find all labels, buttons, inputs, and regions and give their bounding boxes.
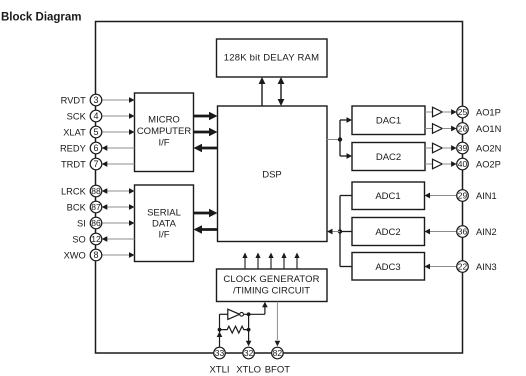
wire: ADC1 to bus [340,195,352,197]
pin 33 (XTLI) [209,347,229,375]
wire: pin RVDT to I/F block [102,97,135,103]
wire: clock to DSP (4) [281,253,286,269]
svg-text:I/F: I/F [158,138,169,149]
svg-text:BCK: BCK [67,202,87,212]
svg-text:39: 39 [458,143,468,153]
op-amp buffer (AO1N) [433,124,443,134]
svg-text:AIN2: AIN2 [476,227,497,237]
wire: buffer to pin 26 [442,126,456,132]
svg-text:ADC1: ADC1 [375,191,400,202]
block: 128K bit DELAY RAM [217,39,328,77]
svg-text:40: 40 [458,159,468,169]
svg-text:BFOT: BFOT [265,364,291,375]
pin 6 (REDY) [60,142,102,154]
svg-text:Block Diagram: Block Diagram [1,12,82,24]
bus: DSP to MICRO I/F [194,144,218,153]
pin 5 (XLAT) [63,126,102,138]
pin 29 (AIN1) [457,190,497,202]
block: SERIAL DATA I/F [135,185,194,262]
svg-text:DAC2: DAC2 [376,152,401,163]
junction node (R left) [218,328,222,332]
svg-text:88: 88 [91,186,101,196]
svg-text:5: 5 [93,127,98,137]
op-amp buffer (AO2P) [433,159,443,169]
IC boundary (outer box) [96,22,463,354]
pin 40 (AO2P) [457,158,501,170]
svg-text:AIN3: AIN3 [476,262,497,272]
wire: ADC bus to DSP [327,229,340,235]
svg-text:22: 22 [458,262,468,272]
pin 32 (XTLO) [236,347,261,375]
svg-text:26: 26 [458,124,468,134]
bus: DSP to SERIAL I/F [194,225,218,234]
block: ADC3 [352,253,425,281]
op-amp buffer (AO1P) [433,107,443,117]
svg-text:DAC1: DAC1 [376,116,401,127]
pin 25 (AO1P) [457,106,501,118]
svg-text:/TIMING CIRCUIT: /TIMING CIRCUIT [233,286,310,297]
wire: pin SI to I/F block [102,220,135,226]
pin 88 (LRCK) [61,185,102,197]
svg-text:SI: SI [77,218,86,228]
svg-text:AO1P: AO1P [476,107,501,117]
svg-text:LRCK: LRCK [61,186,87,196]
svg-text:AO2N: AO2N [476,143,501,153]
wire: clock gen to BFOT [275,302,281,347]
svg-text:25: 25 [458,107,468,117]
bus: MICRO I/F to DSP (2) [194,128,218,137]
wire: clock to DSP (1) [242,253,247,269]
wire: pin SO to I/F block [102,236,135,242]
svg-text:128K bit DELAY RAM: 128K bit DELAY RAM [224,53,320,64]
svg-text:33: 33 [215,348,225,358]
wire: pin REDY to I/F block [102,145,135,151]
svg-text:12: 12 [91,234,101,244]
wire: pin LRCK to I/F block [102,188,135,194]
pin 8 (XWO) [64,249,102,261]
block: ADC1 [352,182,425,210]
svg-text:I/F: I/F [158,230,169,241]
wire: DAC to buffer (AO2N) [425,147,433,149]
wire: DSP to DELAY RAM (up arrow) [259,77,266,106]
svg-text:DATA: DATA [152,219,177,230]
svg-text:TRDT: TRDT [61,159,86,169]
svg-text:36: 36 [458,227,468,237]
svg-text:SCK: SCK [67,111,87,121]
svg-text:XLAT: XLAT [63,127,86,137]
svg-text:AIN1: AIN1 [476,191,497,201]
junction node (DAC feed) [338,137,342,141]
wire: R left stub [220,329,223,331]
wire: pin 36 to ADC [425,229,457,235]
svg-text:ADC2: ADC2 [375,227,400,238]
wire: ADC2 to bus [340,231,352,233]
block: ADC2 [352,218,425,246]
svg-text:XWO: XWO [64,250,86,260]
svg-text:MICRO: MICRO [148,115,180,126]
pin 4 (SCK) [67,110,102,122]
svg-text:8: 8 [93,250,98,260]
block: CLOCK GENERATOR/TIMING CIRCUIT [217,269,328,302]
wire: buffer to pin 40 [442,161,456,167]
svg-text:DSP: DSP [262,170,282,181]
wire: ADC bus vertical [339,196,341,267]
block: DAC2 [352,143,425,171]
resistor R (oscillator feedback) [222,326,248,333]
svg-text:ADC3: ADC3 [375,262,400,273]
wire: XTLI riser [217,314,223,347]
wire: DSP to DAC junction [327,139,340,141]
pin 87 (BCK) [67,201,102,213]
pin 82 (BFOT) [265,347,291,375]
block: DSP [218,106,328,242]
pin 26 (AO1N) [457,123,502,135]
pin 7 (TRDT) [61,158,102,170]
pin 22 (AIN3) [457,261,497,273]
wire: pin XWO to I/F block [102,252,135,258]
wire: oscillator to clock gen [262,302,268,315]
wire: junction to DAC1 [340,117,352,141]
junction node (R right) [247,328,251,332]
svg-text:82: 82 [273,348,283,358]
wire: clock to DSP (3) [268,253,273,269]
svg-text:3: 3 [93,95,98,105]
wire: pin TRDT to I/F block [102,161,135,167]
wire: junction to DAC2 [340,139,352,159]
svg-text:SO: SO [72,234,85,244]
pin 3 (RVDT) [61,94,102,106]
wire: pin XLAT to I/F block [102,129,135,135]
svg-text:XTLI: XTLI [209,364,229,375]
wire: buffer to pin 25 [442,109,456,115]
wire: XTLO dropper [246,314,252,346]
svg-text:CLOCK GENERATOR: CLOCK GENERATOR [223,274,319,285]
wire: pin BCK to I/F block [102,204,135,210]
pin 12 (SO) [72,233,101,245]
wire: ADC3 to bus [340,266,352,268]
wire: DELAY RAM <-> DSP (double arrow) [278,77,285,106]
wire: inverter output [244,313,265,315]
op-amp buffer (AO2N) [433,143,443,153]
inverter U (oscillator) [228,309,244,319]
bus: MICRO I/F to DSP (1) [194,112,218,121]
svg-text:29: 29 [458,191,468,201]
svg-text:SERIAL: SERIAL [147,208,181,219]
svg-text:XTLO: XTLO [236,364,261,375]
wire: pin 29 to ADC [425,193,457,199]
wire: buffer to pin 39 [442,145,456,151]
svg-text:86: 86 [91,218,101,228]
pin 39 (AO2N) [457,142,502,154]
junction node (ADC bus) [338,229,342,233]
svg-text:4: 4 [93,111,98,121]
pin 86 (SI) [77,217,102,229]
svg-text:REDY: REDY [60,143,86,153]
wire: DAC to buffer (AO1P) [425,111,433,113]
wire: clock to DSP (5) [294,253,299,269]
svg-text:AO1N: AO1N [476,124,501,134]
svg-text:COMPUTER: COMPUTER [137,126,192,137]
svg-text:32: 32 [244,348,254,358]
block: DAC1 [352,106,425,135]
junction node (XTLO) [247,312,251,316]
wire: DAC to buffer (AO2P) [425,163,433,165]
svg-text:87: 87 [91,202,101,212]
svg-text:AO2P: AO2P [476,159,501,169]
svg-text:6: 6 [93,143,98,153]
block: MICRO COMPUTER I/F [135,93,194,172]
wire: pin SCK to I/F block [102,113,135,119]
wire: DAC to buffer (AO1N) [425,128,433,130]
bus: SERIAL I/F to DSP [194,209,218,218]
pin 36 (AIN2) [457,226,497,238]
wire: pin 22 to ADC [425,264,457,270]
svg-text:RVDT: RVDT [61,95,86,105]
wire: inverter input [220,313,228,315]
wire: clock to DSP (2) [255,253,260,269]
svg-text:7: 7 [93,159,98,169]
